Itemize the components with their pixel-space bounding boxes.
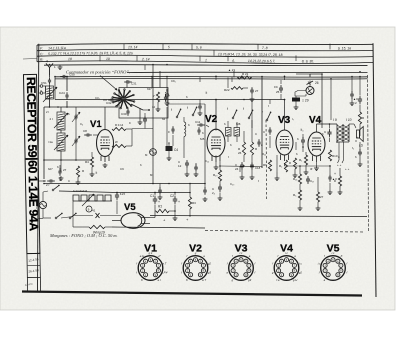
bus y168 mid [220,165,262,168]
wire C19 down [116,201,118,215]
svg-text:R 21: R 21 [242,72,249,76]
svg-text:Wvrρ19: Wvrρ19 [93,231,105,235]
filter cap C2 [174,196,176,199]
svg-text:f: f [187,106,188,110]
wire bias [233,72,235,78]
cap C12 [186,160,188,163]
svg-text:C8: C8 [83,129,87,133]
svg-text:C50: C50 [69,73,75,77]
detector loop left [295,91,306,97]
frame right border [373,43,376,297]
cap in box [165,94,167,97]
bus y1285 [132,128,153,130]
svg-text:+ +: + + [337,163,342,167]
speaker [357,130,360,138]
cap left of OT [329,129,331,132]
rotary wafer switch [125,100,134,102]
svg-text:I 9: I 9 [333,118,337,122]
cap left of coil [172,126,174,129]
svg-text:12: 12 [152,105,156,109]
wire x167 [166,77,168,93]
power coil base [73,200,112,202]
svg-text:f: f [171,108,172,112]
svg-text:C₆: C₆ [80,122,83,126]
resistor R2 [76,166,79,177]
svg-text:V1: V1 [90,119,102,130]
svg-text:R₁: R₁ [299,158,302,162]
bus y74 det [296,73,310,75]
switch mains 1 [52,189,54,191]
svg-text:7, 8: 7, 8 [262,46,268,50]
svg-text:g3: g3 [208,271,212,275]
capacitor C50 [60,76,63,78]
resistor R3 plate [112,128,126,131]
svg-text:I1: I1 [40,89,43,93]
ground FONO [139,108,141,120]
svg-text:R22: R22 [224,88,230,92]
wire x44 vert [43,107,45,179]
svg-text:C24: C24 [59,91,65,95]
output transformer [336,124,338,142]
right resistor R23 [358,112,361,124]
svg-text:K: K [141,278,143,282]
svg-text:I 10: I 10 [346,118,352,122]
ground V1 [104,163,106,165]
det left wire [286,95,295,97]
svg-text:C₁₇: C₁₇ [310,179,314,183]
svg-text:14,21,22,20,6,5,7,: 14,21,22,20,6,5,7, [248,59,276,63]
svg-text:19: 19 [106,57,110,61]
svg-text:41: 41 [92,209,96,213]
table row line 1 [37,50,373,51]
cap h y181 [47,180,50,182]
wire left col [60,107,62,112]
cap bottom2 [251,162,253,165]
top bus wire 1 [44,65,368,66]
terminal circles left edge [40,85,43,88]
cap C27 [251,87,253,90]
top bus wire 2 [127,71,368,74]
svg-text:g2: g2 [299,271,303,275]
cathode R11 [304,155,307,165]
svg-text:+: + [158,200,160,204]
wire y192 bus [59,191,117,193]
right cap C22 [359,96,361,99]
svg-text:ℓ: ℓ [258,179,259,183]
svg-text:9, 15, 16: 9, 15, 16 [338,46,351,50]
svg-text:C:: C: [40,52,44,56]
detector wire right [321,74,323,128]
wire x352 [351,77,353,93]
power coil [73,195,111,201]
detector tube circle [306,87,314,95]
svg-text:C30: C30 [121,112,127,116]
resistor R3 right [188,197,191,209]
svg-text:R₂₀: R₂₀ [213,173,218,177]
svg-text:12: 12 [178,164,182,168]
IF box b [234,128,240,137]
bus wire y99 [55,99,262,101]
svg-text:a.I: a.I [158,278,161,282]
wire x190 down [189,184,191,193]
cap C17 [307,176,309,179]
bus y166 right [285,165,331,167]
tube V4 [308,132,325,156]
tube V2 [207,129,225,157]
svg-text:C32: C32 [106,101,112,105]
tube V5 [121,213,145,229]
wire V3 plate [284,100,286,131]
svg-text:R: R [289,161,291,165]
res under V3 c [293,158,296,169]
junction dots [215,99,217,101]
inner dashed x266 [265,120,268,200]
wire x262 v2 [261,166,263,168]
cap x220 [219,184,221,187]
wire x205 stub [204,184,206,189]
node antenna bus [49,64,51,66]
wire coil [183,117,185,122]
svg-text:g.k: g.k [149,251,153,255]
capacitor C32 [108,99,111,101]
svg-text:18: 18 [68,57,72,61]
switch wires top [126,80,128,88]
table tick marks [123,44,125,50]
svg-text:F:: F: [40,47,43,51]
svg-text:g2: g2 [208,261,212,265]
svg-text:I₇: I₇ [292,117,294,121]
svg-text:δ4: δ4 [162,117,166,121]
switch V3 grid [266,119,268,121]
cap C19 [116,192,118,195]
res under V3 b [268,160,271,171]
svg-text:ℓ₅: ℓ₅ [352,146,354,150]
fuse 41 [73,215,93,217]
svg-text:2, 14: 2, 14 [141,57,150,61]
svg-text:I1a: I1a [49,140,54,144]
choke circle 9 [86,206,92,212]
svg-text:C: C [255,132,257,136]
trimmer cap b [75,137,77,140]
svg-text:3ℓ: 3ℓ [310,167,313,171]
wire stubs sprinkle [144,65,146,70]
svg-text:C2: C2 [170,194,174,198]
svg-text:C11: C11 [195,120,201,124]
top bus wire 3b [55,78,368,81]
wire V2 plate [215,100,217,131]
res WVrp19 [89,225,105,228]
ground C2 [174,216,176,218]
cap C4 blob [166,146,173,151]
grid cap C8 [84,134,87,136]
cap right cluster [258,139,260,142]
bus y160 left [44,159,92,161]
capacitor C51 [49,77,51,80]
svg-text:R1: R1 [158,205,162,209]
antenna [46,64,53,76]
svg-text:K: K [341,254,343,258]
svg-text:≡: ≡ [168,130,170,134]
svg-text:C9₁: C9₁ [171,79,176,83]
trimmer 2I [54,113,68,128]
svg-text:Conmutador en posición “FONO”: Conmutador en posición “FONO”. [66,70,130,75]
svg-text:25: 25 [276,90,280,94]
svg-text:f: f [227,107,228,111]
tube V2 pins [211,155,213,161]
air coil I4 [184,122,186,136]
svg-text:K R M M M: K R M M M [73,189,88,193]
switch V2 b [248,117,250,119]
svg-text:W: W [115,140,118,144]
tube V4 pins [312,156,314,162]
blob cap 29 [292,98,300,102]
ground V2 [215,165,217,167]
capacitor 27 [59,168,61,171]
resistor R22 [231,87,243,90]
svg-text:26: 26 [238,151,242,155]
svg-text:27: 27 [255,89,259,93]
detector wire up [309,81,311,87]
svg-text:C9: C9 [120,167,124,171]
mid cap V3V4 [302,137,304,140]
cap right of coil [198,127,200,130]
heater bus y183 [44,183,205,185]
svg-text:26: 26 [315,81,319,85]
tube V1 [97,130,114,157]
wires under OT [338,142,340,160]
detector diode slash [307,81,314,85]
tube V3 [276,130,293,155]
resistor R26 [242,142,245,155]
svg-text:V5: V5 [124,202,136,213]
trimmer cap a [75,113,77,116]
title block lower extension [26,278,28,292]
svg-text:a.T: a.T [162,261,166,265]
table row line 2 [37,55,373,57]
wire V1 grid [104,107,106,130]
IF box a [226,128,232,137]
cap ground x167 [166,91,168,94]
wire antenna down [49,75,51,77]
svg-text:5, 6: 5, 6 [196,45,202,49]
svg-text:g3: g3 [248,278,252,282]
right wire col [359,77,361,96]
svg-text:+ +: + + [345,167,350,171]
switch mid b [192,114,194,116]
title block box [23,74,39,253]
switch mains 2 [55,217,57,219]
FONO switch box [119,88,168,119]
wire IF [227,121,229,128]
svg-text:8, 9, 30.: 8, 9, 30. [302,59,314,63]
thick bottom rule [22,292,362,296]
switch arm [131,104,143,110]
table bottom border [37,61,373,64]
filter wires [117,192,190,194]
svg-text:C31: C31 [131,82,137,86]
top bus wire 3 [55,75,368,78]
svg-text:27: 27 [63,168,67,172]
cap C25 [280,85,282,88]
ground top left [59,65,61,67]
resistor R3b [112,145,126,148]
wires V2 bottom [243,155,245,162]
svg-text:13, 14: 13, 14 [128,45,138,49]
svg-text:C51: C51 [41,81,47,85]
caption arrow [100,76,117,91]
svg-text:R:: R: [40,58,44,62]
svg-text:+: + [334,172,336,176]
bus drop x262 [261,77,263,169]
capacitor C24 [66,92,68,95]
cap C24 bottom [241,162,243,165]
svg-text:f: f [243,107,244,111]
cap C23 [329,174,331,177]
table left stub line [23,58,37,61]
mains pilot lamp [39,201,46,208]
wire x153 vert [152,65,154,184]
res R27 [316,192,319,202]
svg-text:ℓ: ℓ [36,206,37,210]
svg-text:C3₇: C3₇ [95,96,100,100]
res x220 y170 [218,170,221,181]
svg-text:a.T: a.T [202,278,206,282]
svg-text:2 I: 2 I [50,117,54,121]
table left border [36,45,38,62]
ground V4 [316,166,318,168]
svg-text:R 0.14: R 0.14 [115,123,124,127]
bus left vert x55 [54,77,56,100]
coil I1 box [46,86,54,99]
revision box under title [27,253,40,277]
switch mains 3 [69,217,71,219]
wire x252 mid [251,101,253,142]
wire x244 mid [243,131,245,142]
resistor R24b [250,142,253,155]
coil I1a box [57,133,65,151]
resistor under V3 [284,160,287,172]
svg-text:f.a: f.a [276,278,280,282]
svg-text:Marganes : FONO ; O.M ; O.C.: Marganes : FONO ; O.M ; O.C. 50 m. [49,233,118,238]
svg-text:R10: R10 [332,154,338,158]
svg-text:C₁₂: C₁₂ [205,159,209,163]
wire R3 [189,193,191,198]
wire x132 [131,129,133,146]
svg-text:C1: C1 [150,194,154,198]
ground FONO2 [157,102,159,107]
svg-text:ψ: ψ [46,59,48,63]
bus y215 right [150,216,367,217]
svg-text:δ27: δ27 [48,167,53,171]
wire mains [39,206,40,208]
svg-text:R4: R4 [85,160,89,164]
svg-text:5: 5 [168,45,170,49]
res R16 [298,174,301,184]
wire v2 v3 plate up [215,76,217,80]
wire x67 down [66,77,68,92]
dial lamp [150,149,157,156]
resistor R4 [90,157,93,167]
ground V3 [276,176,278,178]
table top border [37,44,373,45]
inner bottom dashed border [205,231,365,233]
resistor R10 under V4 [328,150,331,161]
trimmer I1a [54,135,68,150]
svg-text:24: 24 [235,167,239,171]
switch V2 a [232,117,234,119]
cap cluster mid [144,116,146,119]
svg-text:C4: C4 [174,148,178,152]
wire V4 plate [316,124,318,132]
bus y107 grid V1 [44,106,118,108]
svg-text:ℓ: ℓ [268,104,269,108]
extra res right [338,176,341,186]
svg-text:1: 1 [205,58,207,62]
svg-text:625: 625 [200,137,205,141]
svg-text:□ 29: □ 29 [302,99,309,103]
svg-text:R: R [334,179,336,183]
svg-text:14,1,11,11a: 14,1,11,11a [48,46,66,50]
bus y228 long [112,227,205,228]
svg-text:+: + [178,200,180,204]
wire x60 tail [59,165,61,169]
filter cap C1 [154,196,156,199]
coil 2I box [57,112,65,130]
svg-text:K: K [186,278,188,282]
svg-text:g.P.4: g.P.4 [161,271,168,275]
resistor R1 [156,209,169,212]
switch mid a [176,116,178,118]
res R5b [298,190,301,200]
wire x220 [219,161,221,170]
svg-text:δ37: δ37 [147,87,152,91]
res in box [156,92,159,102]
cap C30 [127,108,129,111]
wires lower right [299,166,301,174]
svg-text:4,: 4, [232,59,235,63]
grid comps V3 [269,127,271,130]
svg-text:C: C [68,179,70,183]
capacitor C31 [124,81,127,83]
trimmer I1 [43,87,57,102]
resistor R21 [238,76,251,79]
wire x73 down [72,214,74,227]
svg-text:R3: R3 [192,201,196,205]
svg-text:ℓ: ℓ [228,155,229,159]
svg-text:27: 27 [320,195,324,199]
svg-text:2 f: 2 f [46,183,50,187]
frame left border [38,44,39,292]
svg-text:+T: +T [157,254,161,258]
ground I1a [60,176,62,178]
wire y218 left [39,218,44,220]
inner right border [368,75,369,232]
svg-text:2 I: 2 I [46,110,49,114]
tube V1 pins [100,156,102,161]
svg-text:H(S): H(S) [33,199,39,203]
wire x277 v [276,155,278,172]
cap C11 grid [197,124,200,126]
tube V3 pins [280,155,282,161]
